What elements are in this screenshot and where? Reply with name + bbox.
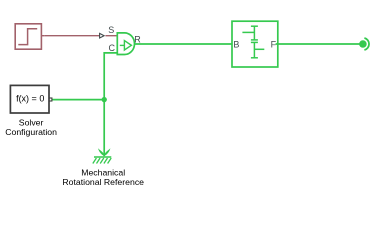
step source block [15, 24, 44, 49]
wire R to B [134, 43, 233, 45]
signal wire stub [105, 35, 117, 37]
svg-text:Solver: Solver [19, 117, 44, 127]
svg-text:B: B [233, 39, 239, 49]
signal wire [44, 35, 100, 37]
wire C to junction [104, 53, 117, 100]
svg-text:C: C [109, 43, 116, 53]
svg-text:Configuration: Configuration [5, 127, 57, 137]
ground (mechanical rotational reference) [93, 148, 112, 163]
wire junction to ground [103, 100, 105, 157]
solver configuration block [10, 85, 52, 113]
wire solver to junction [52, 99, 105, 101]
clutch block U2 [232, 21, 278, 67]
label Solver Configuration [5, 117, 57, 137]
svg-text:S: S [108, 25, 114, 35]
svg-text:Mechanical: Mechanical [81, 168, 125, 178]
label Mechanical Rotational Reference [62, 168, 144, 188]
svg-text:f(x) = 0: f(x) = 0 [16, 94, 44, 104]
source block U1 (D-shape with triangle) [117, 33, 134, 55]
connection port arc [364, 38, 369, 50]
svg-text:R: R [134, 34, 141, 44]
connection port dot [359, 40, 367, 48]
svg-text:Rotational Reference: Rotational Reference [62, 177, 144, 187]
input port arrowhead [100, 33, 105, 38]
junction dot [102, 97, 107, 102]
wire F to port [276, 43, 360, 45]
